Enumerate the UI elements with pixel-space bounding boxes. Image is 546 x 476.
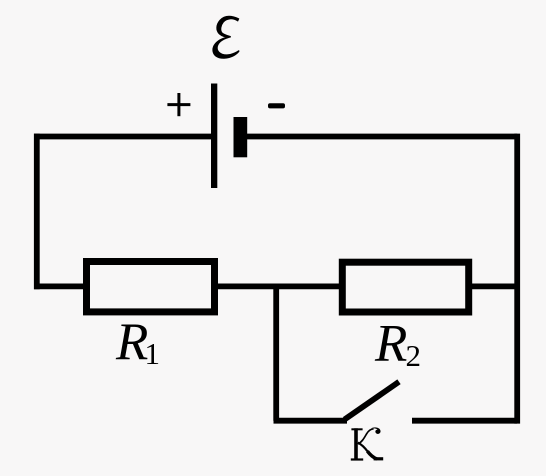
svg-text:2: 2 xyxy=(406,338,422,373)
resistor R1 xyxy=(87,262,215,312)
battery V1: long positive plate xyxy=(211,84,217,189)
wire: middle between R1 and R2 xyxy=(216,283,341,289)
node A: junction drop wire between R1 and R2 xyxy=(273,286,279,420)
svg-text:1: 1 xyxy=(145,336,161,371)
wire: middle right (R2 to right rail) xyxy=(470,283,517,289)
wire: top horizontal right (from battery - plate) xyxy=(247,134,518,140)
resistor R2 xyxy=(342,262,468,312)
svg-text:R: R xyxy=(374,315,407,373)
stem with serifs xyxy=(354,428,358,459)
svg-text:R: R xyxy=(115,313,148,371)
label: minus sign xyxy=(268,103,285,108)
wire: left vertical xyxy=(34,137,40,287)
upper arm: thin S-curve rising to curled terminal xyxy=(358,429,374,444)
wire: bottom left (junction to switch pivot) xyxy=(274,418,348,424)
label: plus sign xyxy=(167,93,190,116)
switch K: open blade xyxy=(345,382,400,420)
label K (switch, Times-style Cyrillic Ka) xyxy=(351,427,383,460)
wire: right vertical xyxy=(514,137,520,421)
label: EMF script E (calligraphic) xyxy=(213,16,239,58)
wire: middle left (left rail to R1) xyxy=(34,283,86,289)
wire: bottom right (switch to right rail) xyxy=(412,418,517,424)
lower leg thickening to foot serif xyxy=(358,443,368,453)
battery V1: short negative plate xyxy=(234,117,248,157)
wire: top horizontal left (to battery + plate) xyxy=(34,134,212,140)
